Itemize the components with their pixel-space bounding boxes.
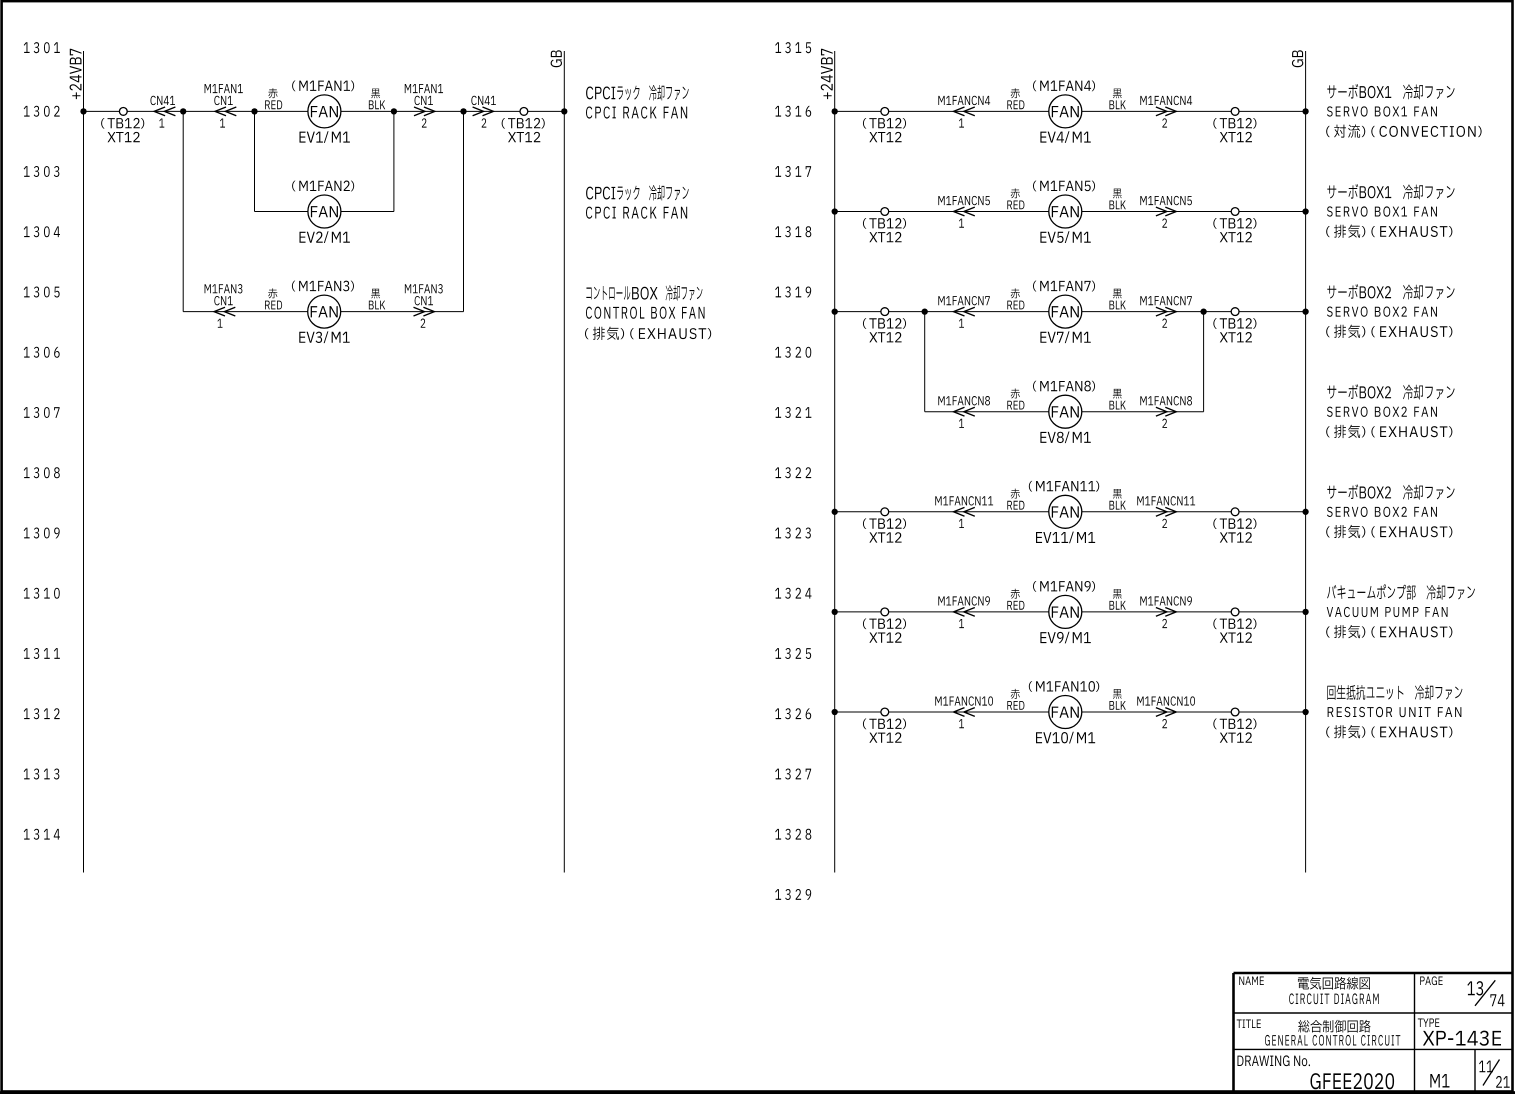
- line number 1327: [775, 768, 811, 779]
- wire label RED on EV4/M1: [1011, 88, 1020, 98]
- wire EV2 branch horizontal: [255, 211, 394, 213]
- line number 1325: [775, 648, 811, 659]
- wire label RED on EV11/M1: [1011, 489, 1020, 499]
- fan motor EV9/M1 (M1FAN9): [1049, 595, 1082, 628]
- description for row EV7/M1: [1327, 284, 1358, 299]
- connector arrow M1FANCN7 pin 1: [954, 307, 965, 316]
- sheet M1: [1430, 1074, 1449, 1088]
- wire riser EV2 branch right: [393, 111, 395, 211]
- description for row EV4/M1: [1327, 84, 1358, 99]
- fan motor EV7/M1 (M1FAN7): [1049, 295, 1082, 328]
- terminal label (TB12) XT12 left of EV9/M1: [863, 618, 867, 629]
- terminal circle (TB12) XT12 right: [520, 108, 528, 116]
- node at +24VB7 bus for EV10/M1: [832, 709, 838, 715]
- node at GB bus row 1302: [561, 108, 567, 114]
- line number 1323: [775, 527, 811, 538]
- title Japanese 総合制御回路: [1298, 1020, 1370, 1033]
- connector arrow M1FANCN5 pin 2: [1156, 207, 1167, 216]
- bus GB (left ladder) vertical line: [563, 51, 565, 873]
- wire label RED (red wire): [268, 88, 277, 98]
- connector arrow M1FANCN10 pin 2: [1156, 708, 1167, 717]
- terminal circle (TB12) XT12 left of EV7/M1: [881, 308, 889, 316]
- fan motor EV10/M1 (M1FAN10): [1049, 696, 1082, 729]
- terminal circle (TB12) XT12 left of EV5/M1: [881, 208, 889, 216]
- connector arrow M1FAN3 CN1 pin 2: [414, 307, 425, 316]
- line number 1313: [24, 768, 60, 779]
- connector arrow M1FANCN5 pin 1: [954, 207, 965, 216]
- wire label RED on EV5/M1: [1011, 188, 1020, 198]
- line number 1317: [775, 166, 811, 177]
- wire EV4/M1 row: [835, 110, 1306, 112]
- fan motor EV3/M1 (M1FAN3): [308, 295, 341, 328]
- terminal label (TB12) XT12 left of EV4/M1: [863, 118, 867, 129]
- terminal label (TB12) XT12 right of EV7/M1: [1213, 318, 1217, 329]
- node at +24VB7 bus for EV11/M1: [832, 509, 838, 515]
- terminal circle (TB12) XT12 left: [119, 108, 127, 116]
- terminal circle (TB12) XT12 left of EV4/M1: [881, 108, 889, 116]
- terminal circle (TB12) XT12 right of EV5/M1: [1231, 208, 1239, 216]
- node junction EV7 to EV8 branch right: [1200, 308, 1206, 314]
- title block DRAWING No. label: [1237, 1055, 1310, 1066]
- node junction from EV3 branch (right): [460, 108, 466, 114]
- wire riser EV8 branch right: [1203, 312, 1205, 412]
- wire label BLK on EV7/M1: [1113, 289, 1122, 299]
- wire EV1 row from +24VB7 bus to GB bus: [84, 110, 565, 112]
- fan motor EV8/M1 (M1FAN8): [1049, 395, 1082, 428]
- type XP-143E: [1423, 1031, 1501, 1046]
- line number 1326: [775, 708, 811, 719]
- line number 1308: [24, 467, 60, 478]
- wire label BLK on EV9/M1: [1113, 589, 1122, 599]
- connector arrow M1FAN1 CN1 pin 2: [414, 107, 425, 116]
- wire label BLK on EV8/M1: [1113, 389, 1122, 399]
- terminal label (TB12) XT12 left of EV7/M1: [863, 318, 867, 329]
- fan motor EV2/M1 (M1FAN2): [308, 195, 341, 228]
- terminal circle (TB12) XT12 right of EV10/M1: [1231, 708, 1239, 716]
- terminal label (TB12) XT12 right of EV5/M1: [1213, 218, 1217, 229]
- terminal label (TB12) XT12 right of EV9/M1: [1213, 618, 1217, 629]
- node junction from EV2 branch (right): [391, 108, 397, 114]
- description for row EV9/M1: [1327, 584, 1475, 599]
- bus label GB: [551, 50, 562, 67]
- node junction to EV3 branch (left): [180, 108, 186, 114]
- bus label +24VB7 right ladder: [821, 49, 833, 99]
- connector arrow M1FANCN4 pin 1: [954, 107, 965, 116]
- line number 1321: [775, 407, 811, 418]
- title block CIRCUIT DIAGRAM: [1289, 993, 1379, 1004]
- line number 1312: [24, 708, 60, 719]
- line number 1319: [775, 286, 811, 297]
- title GENERAL CONTROL CIRCUIT: [1265, 1035, 1400, 1046]
- title block TYPE label: [1418, 1018, 1439, 1027]
- fan motor EV11/M1 (M1FAN11): [1049, 495, 1082, 528]
- description control box fan row 1305: [586, 286, 630, 300]
- fan motor EV4/M1 (M1FAN4): [1049, 95, 1082, 128]
- connector arrow M1FAN3 CN1 pin 1: [214, 307, 225, 316]
- line number 1303: [24, 166, 60, 177]
- node junction to EV2 branch (left): [251, 108, 257, 114]
- terminal label (TB12) XT12 right of EV4/M1: [1213, 118, 1217, 129]
- fan motor EV1/M1 (M1FAN1): [308, 95, 341, 128]
- node at +24VB7 bus for EV5/M1: [832, 208, 838, 214]
- wire riser EV8 branch left: [924, 312, 926, 412]
- connector arrow M1FANCN8 pin 2: [1156, 407, 1167, 416]
- wire EV3 branch horizontal: [183, 311, 463, 313]
- title block vertical divider page fraction: [1474, 1049, 1476, 1092]
- bus label GB right ladder: [1292, 50, 1303, 67]
- wire label RED on EV8/M1: [1011, 389, 1020, 399]
- wire label RED on EV7/M1: [1011, 288, 1020, 298]
- wire EV11/M1 row: [835, 511, 1306, 513]
- connector arrow M1FANCN9 pin 1: [954, 608, 965, 617]
- title block divider TITLE/DRAWING rows: [1234, 1048, 1513, 1050]
- line number 1322: [775, 467, 811, 478]
- line number 1306: [24, 347, 60, 358]
- node at GB bus for EV5/M1: [1302, 208, 1308, 214]
- line number 1318: [775, 226, 811, 237]
- title block vertical divider main: [1414, 973, 1416, 1092]
- terminal circle (TB12) XT12 left of EV10/M1: [881, 708, 889, 716]
- sheet fraction 11/21: [1479, 1061, 1493, 1073]
- line number 1328: [775, 829, 811, 840]
- wire label BLK (black wire): [371, 89, 380, 99]
- wire label BLK on EV5/M1: [1113, 189, 1122, 199]
- wire label BLK on EV4/M1: [1113, 89, 1122, 99]
- connector arrow M1FANCN7 pin 2: [1156, 307, 1167, 316]
- line number 1314: [24, 829, 60, 840]
- terminal circle (TB12) XT12 left of EV11/M1: [881, 508, 889, 516]
- terminal circle (TB12) XT12 right of EV7/M1: [1231, 308, 1239, 316]
- terminal label (TB12) XT12 left of EV5/M1: [863, 218, 867, 229]
- line number 1320: [775, 347, 811, 358]
- wire label BLK on EV11/M1: [1113, 489, 1122, 499]
- page number 13/74: [1467, 981, 1483, 995]
- node at GB bus for EV7/M1: [1302, 308, 1308, 314]
- line number 1309: [24, 527, 60, 538]
- terminal circle (TB12) XT12 right of EV4/M1: [1231, 108, 1239, 116]
- connector arrow M1FANCN10 pin 1: [954, 708, 965, 717]
- description for row EV10/M1: [1327, 685, 1462, 700]
- node at GB bus for EV11/M1: [1302, 509, 1308, 515]
- terminal label (TB12) XT12 left of EV10/M1: [863, 719, 867, 730]
- line number 1324: [775, 588, 811, 599]
- line number 1310: [24, 588, 60, 599]
- line number 1307: [24, 407, 60, 418]
- bus +24VB7 (right ladder) vertical line: [834, 51, 836, 873]
- title block TITLE label: [1237, 1019, 1261, 1028]
- line number 1305: [24, 286, 60, 297]
- line number 1316: [775, 106, 811, 117]
- terminal label (TB12) XT12 right of EV11/M1: [1213, 518, 1217, 529]
- description for row EV11/M1: [1327, 484, 1358, 499]
- connector arrow CN41 pin 2: [473, 107, 484, 116]
- wire riser to EV2 branch left: [254, 111, 256, 211]
- node at GB bus for EV10/M1: [1302, 709, 1308, 715]
- node at +24VB7 bus for EV9/M1: [832, 609, 838, 615]
- node at GB bus for EV9/M1: [1302, 609, 1308, 615]
- title block divider NAME/TITLE rows: [1234, 1012, 1513, 1014]
- wire EV7/M1 row: [835, 311, 1306, 313]
- wire label RED on EV9/M1: [1011, 589, 1020, 599]
- connector arrow M1FANCN4 pin 2: [1156, 107, 1167, 116]
- bus +24VB7 (left ladder) vertical line: [83, 51, 85, 873]
- title block NAME label: [1239, 976, 1264, 985]
- wire riser EV3 branch right: [463, 111, 465, 311]
- node at GB bus for EV4/M1: [1302, 108, 1308, 114]
- description CPCI rack fan row 1303: [586, 187, 615, 200]
- connector arrow M1FAN1 CN1 pin 1: [215, 107, 226, 116]
- wire EV5/M1 row: [835, 211, 1306, 213]
- connector arrow M1FANCN9 pin 2: [1156, 608, 1167, 617]
- wire riser to EV3 branch left: [182, 111, 184, 311]
- wire EV8 branch horizontal: [925, 411, 1204, 413]
- node at +24VB7 bus row 1302: [80, 108, 86, 114]
- connector arrow CN41 pin 1: [154, 107, 165, 116]
- bus GB (right ladder) vertical line: [1305, 51, 1307, 873]
- title block outer frame: [1234, 972, 1513, 975]
- node junction EV7 to EV8 branch left: [922, 308, 928, 314]
- wire label RED on EV3: [268, 288, 277, 298]
- terminal circle (TB12) XT12 left of EV9/M1: [881, 608, 889, 616]
- line number 1329: [775, 889, 811, 900]
- terminal circle (TB12) XT12 right of EV9/M1: [1231, 608, 1239, 616]
- line number 1315: [775, 42, 811, 53]
- connector arrow M1FANCN11 pin 2: [1156, 507, 1167, 516]
- line number 1302: [24, 106, 60, 117]
- description CPCI rack fan row 1302: [586, 87, 615, 100]
- wire label BLK on EV3: [371, 289, 380, 299]
- bus label +24VB7: [70, 49, 82, 99]
- wire label BLK on EV10/M1: [1113, 689, 1122, 699]
- drawing number GFEE2020: [1310, 1073, 1394, 1089]
- terminal label (TB12) XT12 right: [502, 118, 506, 129]
- description for row EV5/M1: [1327, 184, 1358, 199]
- terminal label (TB12) XT12 right of EV10/M1: [1213, 719, 1217, 730]
- connector arrow M1FANCN11 pin 1: [954, 507, 965, 516]
- fan motor EV5/M1 (M1FAN5): [1049, 195, 1082, 228]
- wire label RED on EV10/M1: [1011, 689, 1020, 699]
- title block PAGE label: [1420, 976, 1442, 985]
- wire EV9/M1 row: [835, 611, 1306, 613]
- terminal label (TB12) XT12 left of EV11/M1: [863, 518, 867, 529]
- line number 1304: [24, 226, 60, 237]
- title block name Japanese 電気回路線図: [1298, 977, 1370, 990]
- connector arrow M1FANCN8 pin 1: [954, 407, 965, 416]
- wire EV10/M1 row: [835, 711, 1306, 713]
- line number 1311: [24, 648, 60, 659]
- terminal label (TB12) XT12: [101, 118, 105, 129]
- line number 1301: [24, 42, 60, 53]
- node at +24VB7 bus for EV7/M1: [832, 308, 838, 314]
- description for row EV8/M1: [1327, 384, 1358, 399]
- node at +24VB7 bus for EV4/M1: [832, 108, 838, 114]
- terminal circle (TB12) XT12 right of EV11/M1: [1231, 508, 1239, 516]
